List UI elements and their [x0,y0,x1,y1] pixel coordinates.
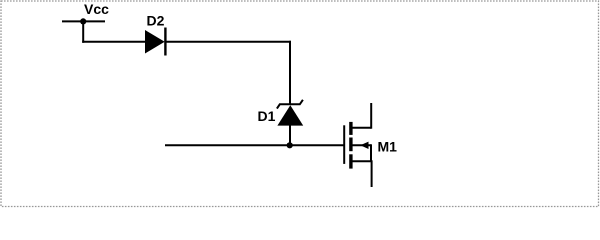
wire: D2 cathode to corner [165,41,291,43]
svg-text:Vcc: Vcc [84,1,109,17]
M1 source lead down [371,160,373,187]
junction dot at gate node [287,142,293,148]
svg-text:D2: D2 [147,13,165,29]
diode D2 cathode bar [164,28,166,56]
svg-text:D1: D1 [258,108,276,124]
junction dot at Vcc [80,18,86,24]
M1 source stub [352,160,372,162]
M1 drain lead up [370,103,372,129]
M1 body arrow (points to channel) [360,142,368,149]
zener D1 cathode bar with bent ends [277,100,303,109]
wire: gate net horizontal [165,144,345,146]
wire: Vcc down [82,21,84,42]
wire: Vcc corner to D2 anode [82,41,146,43]
wire: corner down to D1 cathode [289,41,291,105]
transistor M1 gate plate [343,125,345,164]
zener D1 triangle (anode, pointing up) [277,105,303,125]
M1 drain stub [352,127,372,129]
transistor M1 channel segment (drain side) [349,122,352,135]
transistor M1 channel segment (body) [349,138,352,152]
wire: D1 anode down to gate node [289,125,291,146]
svg-text:M1: M1 [378,139,398,155]
diode D2 triangle [145,30,165,54]
M1 body stub [352,144,372,146]
M1 body-to-source connector [370,144,372,161]
transistor M1 channel segment (source side) [349,154,352,168]
Vcc rail tick [62,20,105,22]
